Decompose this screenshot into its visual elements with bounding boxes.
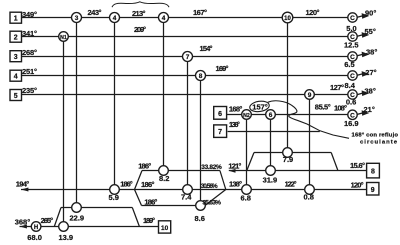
- svg-text:6.8: 6.8: [241, 193, 251, 202]
- svg-text:22.9: 22.9: [70, 214, 85, 223]
- svg-text:55°: 55°: [365, 27, 376, 36]
- cooler C6: [348, 110, 357, 119]
- svg-text:349°: 349°: [22, 10, 37, 19]
- wire stream 8 bypass line: [254, 152, 331, 154]
- svg-text:5.9: 5.9: [109, 193, 119, 202]
- svg-text:136°: 136°: [229, 120, 240, 129]
- arrow exit stream3: [362, 52, 370, 58]
- svg-text:243°: 243°: [88, 8, 102, 17]
- node box 5: [10, 90, 22, 101]
- arrow exit stream6: [362, 110, 370, 116]
- cooler C5: [348, 90, 357, 99]
- node box 6: [214, 107, 227, 120]
- svg-text:6: 6: [218, 111, 222, 118]
- svg-text:127°: 127°: [330, 83, 344, 92]
- svg-text:10: 10: [161, 225, 169, 232]
- svg-text:4: 4: [162, 15, 166, 22]
- svg-text:268°: 268°: [22, 48, 37, 57]
- svg-text:8.4: 8.4: [345, 81, 356, 90]
- svg-text:186°: 186°: [120, 180, 133, 189]
- node box 8: [367, 163, 380, 178]
- svg-text:C: C: [350, 15, 355, 22]
- svg-text:157°: 157°: [252, 102, 267, 111]
- wire match E4b: [163, 18, 165, 171]
- svg-text:8: 8: [371, 169, 375, 176]
- svg-text:120°: 120°: [306, 8, 320, 17]
- svg-text:7: 7: [218, 129, 222, 136]
- svg-text:30.56%: 30.56%: [201, 183, 218, 190]
- wire match E8: [200, 76, 202, 206]
- svg-text:15.6°: 15.6°: [350, 161, 365, 170]
- wire stream 8 bypass down diagonal: [331, 153, 338, 171]
- exchanger 8: [196, 71, 206, 81]
- svg-text:3: 3: [75, 15, 79, 22]
- svg-text:8.6: 8.6: [195, 214, 205, 223]
- wire stream 10 branch diag right: [132, 208, 139, 227]
- arrow exit stream4: [362, 71, 370, 77]
- node box 1: [10, 12, 22, 23]
- node box 2: [10, 31, 22, 42]
- wire match E7: [187, 57, 189, 190]
- svg-text:21°: 21°: [364, 105, 375, 114]
- wire stream 7: [228, 131, 320, 133]
- arrow exit stream5: [362, 90, 370, 96]
- cooler C2: [348, 32, 357, 41]
- svg-text:N2: N2: [243, 113, 250, 119]
- cold unit 22.9: [72, 203, 82, 213]
- svg-text:6.5: 6.5: [344, 60, 354, 69]
- exchanger N2: [242, 110, 252, 120]
- arrow exit stream8 left: [229, 169, 236, 173]
- svg-text:4: 4: [14, 74, 18, 81]
- svg-text:3: 3: [14, 54, 18, 61]
- svg-text:120°: 120°: [351, 181, 364, 190]
- svg-text:168° con reflujo: 168° con reflujo: [352, 133, 399, 139]
- wire stream 2: [22, 36, 349, 38]
- wire stream 9 top branch diag left: [135, 171, 143, 190]
- cold unit 0.8: [305, 185, 315, 195]
- svg-text:368°: 368°: [15, 218, 31, 227]
- wire match N2: [246, 115, 248, 190]
- exchanger N1: [59, 32, 69, 42]
- svg-text:7: 7: [186, 54, 190, 61]
- arrow exit stream10 left: [20, 225, 27, 229]
- wire stream 9 bottom branch: [142, 205, 206, 207]
- svg-text:8: 8: [199, 73, 203, 80]
- wire stream 10 main: [20, 226, 159, 228]
- wire match E10: [287, 18, 289, 153]
- svg-text:10: 10: [284, 16, 291, 22]
- svg-text:213°: 213°: [132, 9, 146, 18]
- heater H: [31, 222, 41, 232]
- wire stream 3: [22, 56, 349, 58]
- svg-text:35.63%: 35.63%: [202, 200, 221, 207]
- svg-text:0.6: 0.6: [346, 97, 356, 106]
- wire match N1: [63, 37, 65, 227]
- wire stream 8 main: [229, 170, 367, 172]
- svg-text:169°: 169°: [216, 64, 229, 73]
- cooler C4: [348, 71, 357, 80]
- node box 9: [367, 183, 379, 196]
- svg-text:138°: 138°: [229, 180, 242, 189]
- exchanger 4a: [110, 13, 120, 23]
- svg-text:341°: 341°: [22, 29, 37, 38]
- wire stream 5: [22, 94, 349, 96]
- svg-text:16.9: 16.9: [344, 119, 359, 128]
- wire stream 4: [22, 75, 349, 77]
- svg-text:235°: 235°: [22, 86, 37, 95]
- svg-text:0.8: 0.8: [304, 193, 314, 202]
- cold unit 6.8: [242, 185, 252, 195]
- cold unit 8.2: [159, 166, 169, 176]
- svg-text:12.5: 12.5: [344, 41, 359, 50]
- exchanger 3: [72, 13, 82, 23]
- svg-text:1: 1: [14, 16, 18, 23]
- svg-text:31.9: 31.9: [263, 176, 278, 185]
- wire stream 9 right: [226, 189, 367, 191]
- cold unit 7.9: [283, 148, 293, 158]
- brace over exchangers 4-4: [112, 2, 169, 7]
- wire stream 10 branch: [61, 207, 132, 209]
- svg-text:251°: 251°: [22, 67, 37, 76]
- svg-text:167°: 167°: [193, 8, 207, 17]
- exchanger 10: [282, 12, 293, 23]
- wire stream 9 bottom branch diag left: [135, 190, 142, 206]
- svg-text:168°: 168°: [229, 104, 243, 113]
- wire stream 9 top branch: [142, 170, 220, 172]
- wire match E9: [309, 95, 311, 190]
- wire stream 6: [227, 114, 349, 116]
- wire stream 9 main: [21, 189, 226, 191]
- node box 10: [159, 221, 171, 233]
- arrow exit stream1: [362, 13, 370, 19]
- svg-text:4: 4: [113, 15, 117, 22]
- svg-text:122°: 122°: [285, 180, 297, 189]
- cold unit 5.9: [110, 185, 120, 195]
- exchanger 6: [266, 110, 276, 120]
- svg-text:38°: 38°: [366, 48, 377, 57]
- svg-text:2: 2: [14, 35, 18, 42]
- svg-text:189°: 189°: [143, 216, 155, 225]
- svg-text:33.82%: 33.82%: [201, 164, 222, 171]
- exchanger 9: [305, 90, 315, 100]
- wire stream 10 branch diag left: [54, 208, 61, 227]
- svg-text:68.0: 68.0: [27, 233, 42, 242]
- svg-text:13.9: 13.9: [59, 233, 74, 242]
- svg-text:9: 9: [371, 187, 375, 194]
- svg-text:7.9: 7.9: [283, 155, 293, 164]
- svg-text:154°: 154°: [200, 44, 213, 53]
- svg-text:7.4: 7.4: [181, 193, 192, 202]
- cold unit 31.9: [266, 166, 276, 176]
- svg-text:5: 5: [14, 93, 18, 100]
- svg-text:N1: N1: [60, 35, 67, 41]
- svg-text:6: 6: [269, 112, 273, 119]
- svg-text:194°: 194°: [16, 179, 29, 188]
- svg-text:90°: 90°: [365, 9, 376, 18]
- svg-text:circulante: circulante: [360, 139, 398, 145]
- svg-text:H: H: [34, 225, 38, 231]
- node box 3: [10, 51, 22, 62]
- node box 7: [214, 125, 227, 137]
- svg-text:5.0: 5.0: [346, 24, 356, 33]
- annotation loop and pointer: [268, 101, 349, 138]
- svg-text:186°: 186°: [141, 180, 155, 189]
- arrow exit stream9 left: [21, 188, 28, 192]
- wire stream 9 top branch diag right: [220, 171, 226, 190]
- svg-text:265°: 265°: [41, 216, 54, 225]
- exchanger 4b: [159, 13, 169, 23]
- cooler C1: [348, 13, 357, 22]
- wire stream 9 bottom branch diag right: [205, 190, 226, 206]
- cold unit 13.9: [59, 222, 69, 232]
- svg-text:186°: 186°: [144, 197, 157, 206]
- node box 4: [10, 70, 22, 81]
- svg-text:121°: 121°: [228, 162, 241, 171]
- cold unit 8.6: [196, 201, 206, 211]
- svg-text:85.5°: 85.5°: [315, 103, 331, 112]
- svg-text:C: C: [350, 73, 355, 80]
- annotation oval around 157: [249, 100, 270, 113]
- svg-text:8.2: 8.2: [159, 174, 169, 183]
- exchanger 7: [183, 52, 193, 62]
- arrow exit stream2: [362, 32, 370, 38]
- cold unit 7.4: [183, 185, 193, 195]
- svg-text:186°: 186°: [138, 162, 151, 171]
- svg-text:9: 9: [308, 92, 312, 99]
- svg-text:38°: 38°: [365, 86, 376, 95]
- wire match E4a: [114, 18, 116, 190]
- svg-text:27°: 27°: [365, 68, 376, 77]
- wire match E6: [270, 115, 272, 171]
- svg-text:209°: 209°: [134, 25, 146, 34]
- wire match E3: [76, 18, 78, 208]
- wire stream 1: [22, 17, 349, 19]
- wire stream 8 bypass up diagonal: [247, 153, 254, 171]
- cooler C3: [348, 52, 357, 61]
